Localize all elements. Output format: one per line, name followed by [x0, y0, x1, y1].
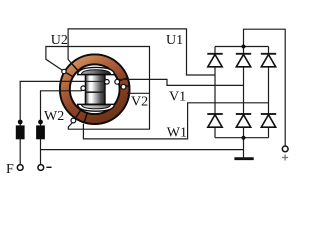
- svg-text:U2: U2: [51, 33, 68, 48]
- svg-text:W1: W1: [167, 125, 187, 140]
- svg-text:U1: U1: [166, 33, 183, 48]
- svg-text:F: F: [6, 162, 14, 177]
- svg-text:V2: V2: [131, 94, 148, 109]
- svg-text:W2: W2: [44, 109, 64, 124]
- svg-text:V1: V1: [169, 89, 186, 104]
